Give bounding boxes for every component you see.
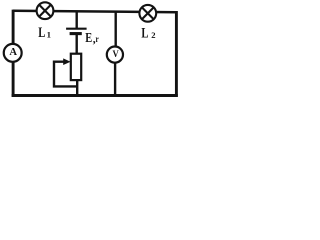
svg-text:E: E [85, 30, 92, 46]
svg-text:1: 1 [47, 29, 51, 39]
svg-text:V: V [112, 49, 119, 60]
lamp L2 [139, 5, 156, 22]
wire: left side of loop [12, 10, 15, 97]
rheostat : resistor box [71, 54, 81, 80]
wire: top side of loop [13, 11, 176, 12]
wire: voltmeter to bottom wire [114, 62, 116, 96]
wire: top wire to voltmeter [114, 12, 116, 48]
svg-text:A: A [9, 47, 17, 58]
svg-text:r: r [96, 34, 99, 44]
svg-text:L: L [38, 25, 45, 41]
voltmeter V [107, 47, 123, 63]
svg-text:L: L [141, 25, 148, 41]
ammeter A [4, 44, 22, 62]
wire: right side of loop [175, 11, 178, 97]
battery E,r : short thick plate [70, 32, 82, 35]
battery label E [85, 30, 92, 46]
battery label r [96, 34, 99, 44]
lamp L1 [37, 2, 54, 19]
lamp L1 label [38, 25, 45, 41]
rheostat wiper arrowhead [63, 58, 70, 65]
wire: top wire to battery [75, 12, 77, 30]
wire: battery to rheostat [75, 34, 77, 55]
wire: wiper arm (left, down, and over to battery branch) [54, 62, 77, 87]
svg-text:2: 2 [151, 30, 155, 40]
lamp L2 label [141, 25, 148, 41]
battery E,r : long plate [66, 28, 87, 30]
wire: rheostat to bottom wire [76, 80, 78, 96]
wire: bottom side of loop [12, 94, 178, 97]
